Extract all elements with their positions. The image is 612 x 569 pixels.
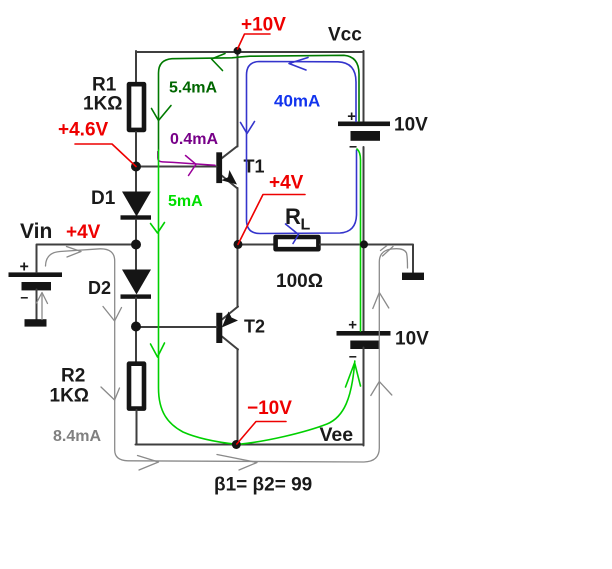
svg-text:R1: R1 <box>92 75 117 96</box>
wire: battery V1 to ground node <box>363 147 365 332</box>
label +4.6V with leader <box>58 120 136 167</box>
svg-text:Vcc: Vcc <box>328 25 362 46</box>
svg-text:10V: 10V <box>395 329 429 350</box>
node: Vee tap (−10V) <box>232 440 241 449</box>
svg-text:−: − <box>20 290 28 306</box>
wire: T2 collector to Vee rail <box>237 349 239 445</box>
source battery Vin <box>9 259 63 306</box>
wire: T1 emitter to output node <box>237 188 239 245</box>
svg-text:+: + <box>20 259 29 276</box>
svg-text:Vin: Vin <box>20 220 52 243</box>
transistor T1 <box>216 146 237 189</box>
wire: T2 base <box>136 326 217 328</box>
current loop 40mA (blue) <box>241 58 357 244</box>
wire: R1 to T1 base node <box>135 132 137 192</box>
svg-text:R2: R2 <box>61 366 85 387</box>
wire: D1 to Vin node <box>135 220 137 271</box>
label +10V with leader <box>238 15 287 50</box>
label −10V with leader <box>237 398 292 444</box>
wire: battery V2 to Vee rail <box>363 348 365 446</box>
svg-text:8.4mA: 8.4mA <box>53 428 101 445</box>
svg-text:1KΩ: 1KΩ <box>50 386 90 407</box>
current loop 8.4mA (gray, outer) <box>37 246 408 471</box>
svg-text:Vee: Vee <box>320 424 354 446</box>
transistor T2 <box>216 307 238 350</box>
svg-text:+10V: +10V <box>241 15 286 36</box>
label RL <box>285 204 311 234</box>
current loop 5.4mA (dark green) <box>152 54 360 151</box>
node: T1 base (+4.6V) <box>131 162 141 172</box>
svg-text:10V: 10V <box>394 115 428 136</box>
node: T2 base <box>131 322 141 332</box>
node: Vin (+4V) <box>131 240 141 250</box>
svg-text:L: L <box>301 217 311 234</box>
wire: Vin positive to +4V node <box>37 245 137 273</box>
wire: bottom Vee rail <box>136 444 364 446</box>
battery V2 (Vee 10V) <box>337 316 391 364</box>
ground (Vin) <box>25 319 47 326</box>
svg-text:100Ω: 100Ω <box>276 271 323 292</box>
wire: RL to midpoint node <box>320 244 364 246</box>
wire: D2 to T2 base node <box>135 298 137 362</box>
svg-text:−10V: −10V <box>247 398 292 419</box>
svg-text:D2: D2 <box>88 278 111 298</box>
ground (right, mid supply) <box>402 273 424 280</box>
label +4V at output with leader <box>238 173 305 245</box>
wire: R2 to Vee rail <box>136 410 138 445</box>
current loop 5mA (bright green, diode chain) <box>151 149 361 445</box>
resistor R1 <box>129 84 144 130</box>
node: output junction <box>234 240 243 249</box>
svg-text:0.4mA: 0.4mA <box>170 131 218 148</box>
wire: right branch upper (Vcc to battery V1) <box>363 51 365 122</box>
svg-text:1KΩ: 1KΩ <box>83 94 123 115</box>
node: Vcc tap (+10V) <box>234 47 242 55</box>
wire: T1 collector to Vcc rail <box>237 51 239 147</box>
wire: left branch top (Vcc corner to R1) <box>135 51 137 83</box>
resistor R2 <box>129 364 144 409</box>
svg-text:+: + <box>348 316 357 333</box>
wire: output node to RL <box>238 244 276 246</box>
wire: Vin negative to ground <box>36 290 38 320</box>
wire: output node to T2 emitter <box>237 244 239 307</box>
svg-text:40mA: 40mA <box>274 92 320 111</box>
diode D1 <box>121 192 152 220</box>
svg-text:+: + <box>347 108 356 125</box>
svg-text:+4V: +4V <box>269 173 304 194</box>
svg-text:5.4mA: 5.4mA <box>169 80 217 97</box>
node: battery midpoint <box>360 240 368 248</box>
battery V1 (Vcc 10V) <box>338 108 390 155</box>
resistor RL <box>276 237 319 249</box>
svg-text:5mA: 5mA <box>168 193 203 210</box>
current arrow 0.4mA (purple, base current) <box>158 152 215 176</box>
wire: midpoint node to ground symbol <box>364 245 413 273</box>
wire: T1 base <box>136 166 217 168</box>
svg-text:+4V: +4V <box>66 222 101 243</box>
svg-text:β1= β2= 99: β1= β2= 99 <box>214 475 312 496</box>
wire: top Vcc rail <box>136 51 364 53</box>
svg-text:−: − <box>349 349 357 365</box>
diode D2 <box>121 270 152 299</box>
svg-text:T2: T2 <box>244 317 265 337</box>
svg-text:+4.6V: +4.6V <box>58 120 109 141</box>
svg-text:D1: D1 <box>91 188 116 209</box>
